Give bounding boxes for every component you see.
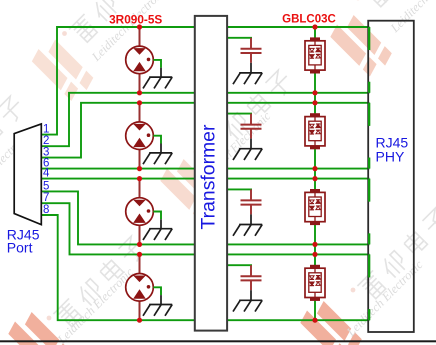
wire transformer center tap to capacitor C1: [227, 37, 252, 39]
wire capacitor C4 to ground: [250, 290, 252, 300]
ground symbol for capacitor C3: [233, 225, 262, 236]
wire transformer center tap to capacitor C2: [227, 113, 252, 115]
junction TVS U2 top: [137, 100, 142, 105]
ground symbol for TVS U3: [143, 229, 172, 240]
wire transformer to PHY net P2B: [227, 168, 369, 170]
wire transformer to PHY net P4A: [227, 253, 369, 255]
svg-text:Port: Port: [7, 239, 33, 255]
ground symbol for capacitor C4: [233, 300, 262, 311]
junction GBLC03C D2 bottom: [312, 166, 317, 171]
TVS diode D2 GBLC03C: [305, 113, 325, 149]
RJ45 PHY U5: [368, 21, 414, 332]
wire capacitor C1 to ground: [250, 63, 252, 73]
TVS diode D4 GBLC03C: [305, 265, 325, 301]
wire transformer to PHY net P1A: [227, 26, 369, 28]
sheet border bottom: [0, 340, 436, 342]
junction TVS U2 bottom: [137, 166, 142, 171]
wire stub at PHY pin pair 3 top: [368, 179, 370, 202]
junction TVS U4 bottom: [137, 318, 142, 323]
wire overlay PHY pair 1: [368, 27, 370, 93]
wire TVS U3 to ground: [153, 212, 161, 229]
wire GBLC03C D3 bottom lead: [314, 225, 316, 255]
junction GBLC03C D4 top: [312, 252, 317, 257]
capacitor C1: [241, 38, 262, 63]
junction GBLC03C D3 top: [312, 176, 317, 181]
svg-text:5: 5: [43, 180, 49, 192]
TVS array U3 3R090-5S: [126, 179, 154, 245]
ground symbol for TVS U4: [143, 305, 172, 316]
junction TVS U1 top: [137, 24, 142, 29]
junction GBLC03C D4 bottom: [312, 318, 317, 323]
junction TVS U3 bottom: [137, 242, 142, 247]
wire GBLC03C D2 top lead: [314, 103, 316, 114]
TVS diode D1 GBLC03C: [305, 37, 325, 73]
svg-text:2: 2: [43, 135, 49, 147]
svg-text:4: 4: [43, 168, 50, 180]
wire stub at PHY pin pair 3 bottom: [368, 233, 370, 244]
svg-text:8: 8: [43, 204, 49, 216]
wire stub at PHY pin pair 4 bottom: [368, 309, 370, 320]
wire GBLC03C D4 top lead: [314, 254, 316, 265]
wire pin4 to transformer net TD3+: [41, 178, 195, 180]
TVS diode D3 GBLC03C: [305, 189, 325, 225]
capacitor C2: [241, 114, 262, 139]
junction TVS U3 top: [137, 176, 142, 181]
wire transformer to PHY net P1B: [227, 92, 369, 94]
wire overlay PHY pair 4: [368, 254, 370, 320]
wire pin7 to transformer net TD4+: [41, 203, 195, 254]
wire overlay PHY pair 3: [368, 179, 370, 245]
wire transformer to PHY net P4B: [227, 319, 369, 321]
wire transformer center tap to capacitor C4: [227, 264, 252, 266]
wire GBLC03C D1 top lead: [314, 27, 316, 38]
label RJ45 Port: [7, 226, 40, 255]
svg-text:1: 1: [43, 124, 49, 136]
ground symbol for TVS U2: [143, 153, 172, 164]
wire pin2 to transformer net TD1-: [41, 93, 195, 146]
svg-text:GBLC03C: GBLC03C: [282, 13, 336, 25]
TVS array U4 3R090-5S: [126, 254, 154, 320]
wire capacitor C3 to ground: [250, 214, 252, 224]
wire capacitor C2 to ground: [250, 139, 252, 149]
svg-text:PHY: PHY: [376, 149, 405, 165]
RJ45 port connector J1: [14, 124, 50, 225]
ground symbol for capacitor C1: [233, 73, 262, 84]
wire GBLC03C D4 bottom lead: [314, 301, 316, 321]
TVS array U2 3R090-5S: [126, 103, 154, 169]
wire GBLC03C D3 top lead: [314, 179, 316, 190]
wire transformer to PHY net P3B: [227, 243, 369, 245]
junction GBLC03C D1 top: [312, 24, 317, 29]
wire stub at PHY pin pair 1 bottom: [368, 82, 370, 93]
wire TVS U2 to ground: [153, 136, 161, 153]
wire pin8 to transformer net TD4-: [41, 215, 195, 320]
TVS array U1 3R090-5S: [126, 27, 154, 93]
wire stub at PHY pin pair 4 top: [368, 254, 370, 277]
svg-text:3R090-5S: 3R090-5S: [109, 12, 162, 26]
ground symbol for TVS U1: [143, 77, 172, 88]
junction GBLC03C D2 top: [312, 100, 317, 105]
wire pin3 to transformer net TD2+: [41, 103, 195, 158]
svg-text:Transformer: Transformer: [197, 124, 219, 229]
wire TVS U4 to ground: [153, 287, 161, 304]
wire stub at PHY pin pair 2 bottom: [368, 158, 370, 169]
wire pin1 to transformer net TD1+: [41, 27, 195, 135]
wire pin5 to transformer net TD3-: [41, 191, 195, 244]
capacitor C3: [241, 189, 262, 214]
wire transformer to PHY net P2A: [227, 102, 369, 104]
wire stub at PHY pin pair 2 top: [368, 103, 370, 126]
wire transformer center tap to capacitor C3: [227, 188, 252, 190]
junction GBLC03C D3 bottom: [312, 242, 317, 247]
wire transformer to PHY net P3A: [227, 178, 369, 180]
svg-text:7: 7: [43, 192, 49, 204]
wire stub at PHY pin pair 1 top: [368, 27, 370, 50]
ground symbol for capacitor C2: [233, 149, 262, 160]
wire GBLC03C D2 bottom lead: [314, 149, 316, 179]
wire pin6 to transformer net TD2-: [41, 168, 195, 170]
wire overlay PHY pair 2: [368, 103, 370, 169]
junction TVS U4 top: [137, 252, 142, 257]
transformer T1: [195, 16, 227, 331]
junction TVS U1 bottom: [137, 90, 142, 95]
wire TVS U1 to ground: [153, 60, 161, 77]
wire GBLC03C D1 bottom lead: [314, 73, 316, 103]
capacitor C4: [241, 265, 262, 290]
junction GBLC03C D1 bottom: [312, 90, 317, 95]
